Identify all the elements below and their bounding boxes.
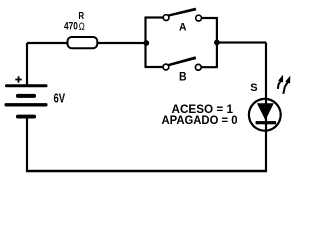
battery plate 2 short [16,94,36,98]
switch A left contact circle [163,15,169,21]
wire resistor to left junction [97,42,147,44]
switch B lever [168,56,196,66]
resistor R body [68,37,98,48]
battery plus sign [15,76,21,82]
wire bottom rail [26,170,267,173]
switch B left contact circle [163,64,169,70]
LED circle [249,99,281,131]
junction dot right [214,40,220,46]
LED triangle [257,103,274,120]
battery plate 1 long positive [5,84,48,87]
svg-text:B: B [179,70,187,84]
wire switch network right vertical [216,18,218,68]
wire switch network left vertical [144,18,146,68]
wire switch B left lead [145,66,163,68]
LED cathode bar [256,121,276,124]
svg-text:A: A [179,22,187,34]
battery plate 3 long [5,103,48,106]
LED light arrow 1 [275,74,285,90]
svg-text:APAGADO = 0: APAGADO = 0 [162,113,238,127]
wire switch A right lead [202,17,218,19]
junction dot left [143,40,149,46]
wire switch B right lead [202,66,218,68]
wire battery positive riser [26,43,28,86]
wire battery negative riser [26,117,28,171]
svg-text:6V: 6V [54,92,66,106]
switch A right contact circle [196,15,202,21]
svg-text:470: 470 [64,21,78,33]
svg-text:Ω: Ω [79,21,85,33]
wire LED column vertical [265,43,267,172]
LED light arrow 2 [281,75,293,95]
battery plate 4 short [16,115,36,119]
wire right junction to LED column [217,41,266,43]
wire switch A left lead [145,16,164,18]
svg-text:S: S [250,82,258,94]
wire top rail corner to resistor [27,42,68,44]
switch B right contact circle [195,64,201,70]
switch A lever [168,8,196,17]
